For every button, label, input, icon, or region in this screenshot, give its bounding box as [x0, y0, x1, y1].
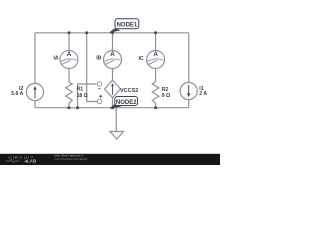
svg-text:IB: IB — [96, 56, 101, 62]
svg-text:R1: R1 — [77, 86, 84, 92]
svg-text:18 Ω: 18 Ω — [77, 93, 88, 99]
svg-text:NODE2: NODE2 — [116, 100, 137, 106]
svg-text:◂LAB: ◂LAB — [24, 159, 37, 164]
svg-text:IA: IA — [54, 56, 59, 62]
svg-text:IC: IC — [139, 56, 144, 62]
svg-text:9 Ω: 9 Ω — [162, 93, 170, 99]
svg-text:NODE1: NODE1 — [117, 23, 138, 29]
svg-text:VCCS2: VCCS2 — [120, 88, 138, 94]
svg-text:5.6 A: 5.6 A — [11, 91, 23, 97]
svg-text:2 A: 2 A — [199, 91, 207, 97]
svg-text:john_flore / ejercicio 1: john_flore / ejercicio 1 — [54, 153, 84, 157]
svg-text:http://circuitlab.com/c9pjc4k: http://circuitlab.com/c9pjc4k — [55, 157, 89, 161]
